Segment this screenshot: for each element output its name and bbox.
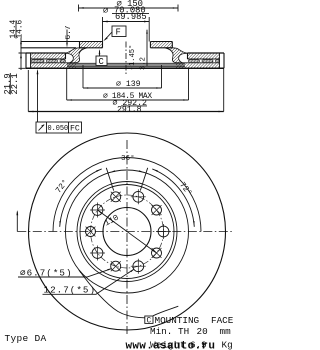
label 6.7 side leader with up arrow <box>16 212 18 232</box>
band bottom plate hatch left <box>31 63 77 68</box>
datum C box <box>96 56 107 66</box>
datum F box <box>112 26 126 37</box>
small hole 324deg <box>152 248 162 258</box>
bolt circle (dash-dot) <box>91 195 164 268</box>
dia139 circle <box>80 185 174 279</box>
hat top plate left hatched <box>80 42 103 48</box>
svg-text:0.050: 0.050 <box>48 125 69 133</box>
bolt hole 288deg <box>133 261 144 272</box>
hat OD circle <box>77 182 177 282</box>
svg-text:FACE: FACE <box>211 315 234 326</box>
svg-text:6.7: 6.7 <box>65 25 73 39</box>
svg-text:C: C <box>147 317 152 325</box>
svg-text:36°: 36° <box>121 154 135 163</box>
band plate boundary lines <box>31 58 220 60</box>
runout feature control frame 0.050 FC <box>36 122 82 133</box>
svg-text:MOUNTING: MOUNTING <box>155 315 200 326</box>
front view centerline vertical <box>126 140 128 334</box>
svg-text:mm: mm <box>220 326 232 337</box>
svg-text:21.9: 21.9 <box>3 73 13 94</box>
small hole 108deg <box>111 192 121 202</box>
disc OD circle <box>29 133 226 330</box>
band line extension ticks <box>19 53 27 68</box>
vent vane lozenges right <box>189 60 200 62</box>
front view centerline horizontal <box>17 231 233 233</box>
hat right wall hatched <box>165 48 188 63</box>
mounting flange lines left <box>21 42 80 48</box>
bolt hole 0deg <box>158 226 169 237</box>
svg-text:Kg: Kg <box>222 339 233 350</box>
hat top plate right hatched <box>150 42 172 48</box>
braking band left outer edge <box>25 53 27 68</box>
band ID circle <box>66 170 189 293</box>
section centerline <box>125 42 127 75</box>
small hole 180deg <box>86 227 96 237</box>
band bottom plate hatch right <box>176 63 220 68</box>
center bore circle <box>103 208 151 256</box>
bolt hole 72deg <box>133 191 144 202</box>
band inner edge verticals <box>66 53 188 59</box>
svg-text:20: 20 <box>197 326 208 337</box>
dim 72deg left <box>60 169 102 227</box>
hat left wall hatched <box>65 48 88 63</box>
braking band left chamfer line <box>30 53 32 68</box>
braking band right outer edge <box>223 53 225 68</box>
dim 72deg right <box>152 169 194 227</box>
svg-text:14.4: 14.4 <box>10 19 18 38</box>
braking band right chamfer line <box>219 53 221 68</box>
small hole 36deg <box>152 205 162 215</box>
band top plate hatch left <box>31 53 66 59</box>
vent channel arc (upper half) <box>53 158 201 232</box>
svg-text:Min.: Min. <box>150 326 172 337</box>
bolt hole 144deg <box>92 205 103 216</box>
svg-text:3.2: 3.2 <box>139 57 147 70</box>
small hole 252deg <box>111 261 121 271</box>
mounting face leader <box>79 270 145 318</box>
svg-text:TH: TH <box>178 326 189 337</box>
bolt hole 216deg <box>92 248 103 259</box>
band top plate hatch right <box>188 53 220 59</box>
vent vane lozenges left <box>32 60 45 62</box>
svg-text:F: F <box>116 28 121 38</box>
svg-text:C: C <box>99 57 104 67</box>
svg-text:291.8: 291.8 <box>117 105 142 114</box>
caption C MOUNTING FACE <box>145 316 153 323</box>
svg-text:Type DA: Type DA <box>5 333 47 344</box>
runout leader <box>37 71 39 123</box>
dim dia110 <box>98 210 157 253</box>
svg-text:-1.45°: -1.45° <box>128 45 137 71</box>
band bottom surface line <box>26 67 224 69</box>
svg-text:www.asauto.ru: www.asauto.ru <box>126 340 216 350</box>
svg-text:FC: FC <box>70 125 80 134</box>
svg-text:⌀: ⌀ <box>103 6 108 16</box>
band top surface line <box>26 52 224 54</box>
dim 36deg <box>140 168 147 191</box>
hat interior hidden lines <box>67 63 185 66</box>
